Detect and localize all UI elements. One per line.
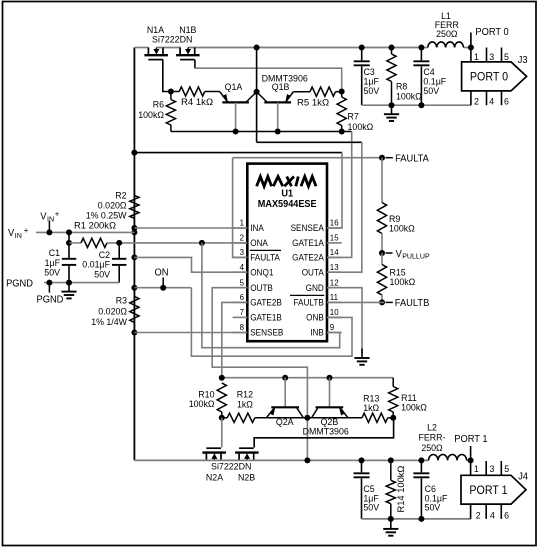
svg-text:15: 15 [330, 233, 339, 243]
svg-text:GATE1A: GATE1A [292, 238, 324, 248]
svg-text:1kΩ: 1kΩ [237, 399, 253, 410]
svg-text:V: V [8, 228, 15, 239]
wire PORT0 stub [470, 33, 472, 48]
node C1 bottom [66, 280, 72, 286]
logo MAXIM [257, 177, 272, 187]
wire N1B gate lead [194, 60, 196, 69]
capacitor C1 [68, 243, 70, 259]
svg-text:DMMT3906: DMMT3906 [262, 74, 308, 85]
wire ON tick [162, 278, 164, 288]
wire ON row [134, 287, 191, 289]
capacitor C4 [420, 48, 422, 61]
wire VIN+ left rail [133, 48, 135, 461]
wire FAULTA horizontal [233, 157, 384, 159]
svg-text:GATE1B: GATE1B [250, 313, 282, 323]
svg-text:50V: 50V [425, 502, 441, 513]
svg-text:R5 1kΩ: R5 1kΩ [297, 98, 329, 109]
svg-text:6: 6 [240, 292, 245, 302]
wire N2B gate net [254, 418, 393, 448]
pin 14 GATE2A [327, 256, 342, 258]
pin 6 GATE2B [233, 301, 248, 303]
svg-text:250Ω: 250Ω [436, 29, 457, 40]
node FAULTB [379, 299, 385, 305]
svg-text:SENSEB: SENSEB [250, 328, 283, 338]
wire Q1B base lead [277, 102, 279, 131]
svg-text:IN: IN [47, 214, 54, 223]
svg-text:PULLUP: PULLUP [402, 252, 430, 261]
svg-text:ONA: ONA [250, 238, 268, 248]
wire FAULTB pin 11 [327, 301, 384, 303]
pin 4 ONQ1 [233, 271, 248, 273]
svg-text:+: + [55, 208, 60, 218]
pin J4 pin6 stub [500, 504, 502, 519]
node Q1B base [275, 129, 281, 135]
node SENSEA rail junction [131, 150, 137, 156]
resistor R12 [227, 413, 255, 422]
svg-text:Si7222DN: Si7222DN [211, 462, 251, 473]
op-amp U1 MAX5944ESE box [247, 164, 327, 342]
wire Q2 base rail [222, 377, 393, 379]
node OUTB rail junction [304, 457, 310, 463]
svg-text:J4: J4 [518, 472, 528, 483]
wire Q2B base lead [329, 378, 331, 407]
wire top rail segment 2 [156, 47, 180, 49]
svg-text:50V: 50V [94, 270, 110, 281]
node rail SENSEB [131, 330, 137, 336]
pin J3 pin2 [470, 91, 472, 105]
inductor L1 FERR 250 [428, 42, 464, 48]
transistor N2B Si7222DN [235, 451, 259, 453]
node ONA branch [199, 240, 205, 246]
node L2 out [468, 457, 474, 463]
svg-text:3: 3 [490, 464, 495, 475]
svg-text:ONQ1: ONQ1 [250, 267, 273, 277]
wire ON to ONB [191, 288, 352, 357]
ground IC GND [361, 349, 363, 359]
wire Q1A base lead [235, 102, 237, 131]
node R14 bottom [388, 516, 394, 522]
resistor R14 [390, 460, 392, 480]
node R8 bottom [389, 102, 395, 108]
svg-text:16: 16 [330, 218, 339, 228]
node R7 bottom [339, 129, 345, 135]
wire INA pin1 [134, 227, 247, 229]
resistor R6 [170, 92, 172, 100]
svg-text:4: 4 [490, 511, 495, 522]
svg-text:FAULTB: FAULTB [294, 298, 324, 308]
svg-text:FAULTA: FAULTA [250, 253, 280, 263]
wire top rail after L1 [464, 47, 471, 49]
transistor Q1A DMMT3906 [222, 101, 249, 103]
svg-text:FAULTA: FAULTA [395, 154, 429, 165]
pin 13 OUTA [327, 271, 342, 273]
node C5 top [359, 457, 365, 463]
pin J4 pin3 stub [485, 461, 487, 475]
wire C1 to R1 node [68, 232, 70, 243]
node rail INA [131, 225, 137, 231]
svg-text:50V: 50V [364, 86, 380, 97]
inductor L2 FERR 250 [429, 454, 467, 460]
pin 2 ONA [233, 242, 248, 244]
node C1 top [66, 229, 72, 235]
svg-text:3: 3 [489, 52, 494, 63]
pin 3 FAULTA [233, 256, 248, 258]
svg-text:PGND: PGND [37, 295, 64, 306]
svg-text:50V: 50V [44, 267, 60, 278]
svg-text:100kΩ: 100kΩ [189, 399, 215, 410]
capacitor C2 [118, 243, 120, 259]
svg-text:J3: J3 [518, 55, 528, 66]
svg-text:OUTB: OUTB [250, 283, 273, 293]
svg-text:100kΩ: 100kΩ [138, 110, 164, 121]
resistor R7 [341, 92, 343, 98]
node C3 top [359, 45, 365, 51]
resistor R9 [381, 158, 383, 203]
svg-text:ON: ON [155, 268, 169, 279]
node R13 R11 junction [390, 415, 396, 421]
node C4 bottom [418, 102, 424, 108]
svg-text:1% 1/4W: 1% 1/4W [91, 317, 127, 328]
node Q1 collectors [254, 89, 260, 95]
svg-text:11: 11 [330, 292, 338, 302]
connector J3 PORT 0 [462, 62, 527, 91]
transistor N1A Si7222DN [144, 54, 168, 56]
node C2 top [116, 240, 122, 246]
node R14 top [388, 457, 394, 463]
svg-text:50V: 50V [423, 86, 439, 97]
node C6 top [418, 457, 424, 463]
svg-text:3: 3 [240, 247, 245, 257]
node R1 left [66, 240, 72, 246]
node R10 top [219, 375, 225, 381]
svg-text:1: 1 [474, 464, 479, 475]
svg-text:Si7222DN: Si7222DN [152, 35, 192, 46]
wire ONQ1 jog [134, 257, 247, 272]
wire OUTB bottom rail [134, 459, 428, 461]
svg-text:50V: 50V [363, 502, 379, 513]
connector J4 PORT 1 [461, 475, 526, 504]
node ON tick [160, 285, 166, 291]
wire Q1 collectors to OUT rail [256, 48, 258, 92]
svg-text:N2B: N2B [238, 472, 255, 483]
pin 15 GATE1A [327, 242, 342, 244]
svg-text:14: 14 [330, 247, 339, 257]
pin 1 INA [233, 227, 248, 229]
svg-text:Q1A: Q1A [225, 82, 243, 93]
wire N1B gate to R5 R7 node [195, 68, 342, 90]
wire bottom rail after L2 [467, 459, 471, 461]
wire top OUT rail segment 3 [188, 47, 428, 49]
pin J4 pin5 stub [500, 461, 502, 475]
resistor R2 [130, 196, 139, 219]
resistor R5 [293, 91, 310, 93]
wire OUTA vertical to pin 13 [327, 142, 362, 272]
transistor N1B Si7222DN [176, 54, 200, 56]
wire GND pin12 [327, 288, 362, 354]
node R8 top [389, 45, 395, 51]
capacitor C5 [361, 460, 363, 472]
svg-text:100kΩ: 100kΩ [401, 403, 427, 414]
node VIN+ tick [46, 229, 52, 235]
resistor R11 [392, 378, 394, 387]
pin 12 GND [327, 287, 342, 289]
pin 10 ONB [327, 316, 342, 318]
svg-text:5: 5 [240, 277, 245, 287]
ground below R8 [391, 105, 393, 114]
svg-text:R7: R7 [348, 112, 359, 123]
svg-text:GATE2A: GATE2A [292, 253, 324, 263]
svg-text:FAULTB: FAULTB [395, 298, 430, 309]
pin 7 GATE1B [233, 316, 248, 318]
svg-text:ONB: ONB [306, 313, 324, 323]
svg-text:6: 6 [504, 96, 509, 107]
node OUT rail Q1 [254, 45, 260, 51]
wire J3 pin1 [470, 48, 472, 62]
resistor R4 [171, 91, 179, 93]
transistor Q2A DMMT3906 [271, 406, 299, 408]
wire N2A gate lead [221, 418, 223, 448]
pin 5 OUTB [233, 287, 248, 289]
resistor R8 [391, 48, 393, 55]
svg-text:250Ω: 250Ω [421, 443, 442, 454]
wire OUTA horizontal [257, 141, 362, 143]
svg-text:PORT 1: PORT 1 [469, 485, 507, 497]
svg-text:SENSEA: SENSEA [291, 223, 324, 233]
wire VIN+ input [36, 231, 134, 233]
svg-text:INA: INA [250, 223, 264, 233]
svg-text:13: 13 [330, 262, 339, 272]
transistor N2A Si7222DN [202, 451, 226, 453]
node Q2B base rail [327, 375, 333, 381]
svg-text:PORT 0: PORT 0 [470, 72, 508, 84]
svg-text:100kΩ: 100kΩ [390, 277, 416, 288]
svg-text:7: 7 [240, 307, 245, 317]
svg-text:V: V [40, 211, 47, 222]
resistor R10 [217, 383, 226, 412]
node Q1A base [233, 129, 239, 135]
pin 11 FAULTB [327, 301, 342, 303]
node Q2 collectors OUTB [304, 415, 310, 421]
node VPULLUP [379, 250, 385, 256]
svg-text:PORT 0: PORT 0 [475, 27, 509, 38]
node rail FAULTA jog [131, 254, 137, 260]
svg-text:R3: R3 [116, 296, 127, 307]
svg-text:2: 2 [476, 511, 481, 522]
svg-text:4: 4 [489, 96, 494, 107]
svg-text:R4 1kΩ: R4 1kΩ [181, 97, 213, 108]
label VPULLUP terminal [386, 252, 393, 254]
node R10 bottom [219, 415, 225, 421]
node C6 bottom [418, 516, 424, 522]
ground below C1 [68, 283, 70, 292]
wire GATE2A row [171, 131, 352, 133]
svg-text:12: 12 [330, 277, 339, 287]
svg-text:GND: GND [306, 283, 324, 293]
label FAULTB terminal [386, 301, 393, 303]
wire port1 ground rail [362, 518, 471, 520]
node rail ON [131, 285, 137, 291]
svg-text:9: 9 [330, 322, 335, 332]
wire OUTB net [212, 288, 307, 461]
node rail VIN [131, 229, 137, 235]
wire OUTA from rail [256, 92, 258, 143]
svg-text:1: 1 [240, 218, 245, 228]
wire SENSEA vertical to pin 16 [327, 153, 342, 228]
svg-text:1kΩ: 1kΩ [363, 403, 379, 414]
pin J3 pin3 stub [486, 48, 488, 62]
wire port0 bottom rail [362, 104, 471, 106]
node FAULTA R9 [379, 155, 385, 161]
capacitor C3 [361, 48, 363, 61]
wire PORT1 stub [470, 446, 472, 460]
svg-text:+: + [24, 225, 29, 235]
capacitor C6 [420, 460, 422, 472]
pin J4 pin2 [470, 504, 472, 519]
svg-text:INB: INB [310, 328, 324, 338]
svg-text:R14 100kΩ: R14 100kΩ [396, 466, 407, 513]
wire SENSEA horizontal [134, 152, 342, 154]
wire PGND tick [48, 283, 50, 293]
pin 8 SENSEB [233, 332, 248, 334]
svg-text:N2A: N2A [206, 472, 224, 483]
svg-text:IN: IN [15, 231, 22, 240]
label R14 rotated [396, 466, 407, 513]
node PGND tick [46, 280, 52, 286]
node R6 R4 N1A gate junction [168, 89, 174, 95]
node Q2A base rail [282, 375, 288, 381]
svg-text:2: 2 [474, 96, 479, 107]
resistor R13 [362, 413, 388, 422]
resistor R15 [381, 253, 383, 265]
svg-text:1: 1 [474, 52, 479, 63]
wire N1A gate lead [163, 60, 170, 92]
svg-text:8: 8 [240, 322, 245, 332]
wire GATE2B net [222, 302, 248, 377]
svg-text:6: 6 [504, 511, 509, 522]
resistor R3 [133, 288, 135, 297]
wire ONA row [107, 242, 247, 244]
svg-text:10: 10 [330, 307, 339, 317]
pin J3 pin4 stub [486, 91, 488, 105]
pin J3 pin6 stub [501, 91, 503, 105]
pin 16 SENSEA [327, 227, 342, 229]
wire PGND row [44, 282, 119, 284]
wire ONA to INB [202, 243, 340, 348]
wire FAULTA stub pin 3 [233, 158, 248, 258]
svg-text:DMMT3906: DMMT3906 [303, 427, 349, 438]
ground below R14 [390, 519, 392, 529]
wire top OUT rail segment 1 [134, 47, 148, 49]
svg-text:V: V [396, 249, 403, 260]
node R5 R7 junction [339, 89, 345, 95]
transistor Q1B DMMT3906 [264, 101, 291, 103]
svg-text:100kΩ: 100kΩ [389, 223, 415, 234]
wire SENSEB row [134, 332, 247, 334]
node L1 out [468, 45, 474, 51]
pin 9 INB [327, 332, 342, 334]
svg-text:GATE2B: GATE2B [250, 298, 282, 308]
svg-text:100kΩ: 100kΩ [396, 92, 422, 103]
wire GATE2A vertical to pin 14 [327, 132, 352, 258]
label FAULTA terminal [386, 157, 393, 159]
pin J3 pin5 stub [501, 48, 503, 62]
transistor Q2B DMMT3906 [316, 406, 344, 408]
svg-text:R1 200kΩ: R1 200kΩ [74, 221, 116, 232]
svg-text:2: 2 [240, 233, 245, 243]
wire J4 pin1 [470, 460, 472, 475]
wire Q2A base lead [284, 378, 286, 407]
resistor R1 [69, 242, 81, 244]
svg-text:PORT 1: PORT 1 [454, 434, 488, 445]
svg-text:4: 4 [240, 262, 245, 272]
wire Q2 emitter row [222, 417, 227, 419]
svg-text:5: 5 [504, 464, 509, 475]
pin J4 pin4 stub [485, 504, 487, 519]
svg-text:OUTA: OUTA [302, 267, 324, 277]
wire VIN+ tick [48, 221, 50, 231]
svg-text:MAX5944ESE: MAX5944ESE [258, 199, 317, 210]
svg-text:5: 5 [504, 52, 509, 63]
svg-text:R6: R6 [153, 99, 164, 110]
svg-text:PGND: PGND [6, 278, 33, 289]
node C4 top [418, 45, 424, 51]
